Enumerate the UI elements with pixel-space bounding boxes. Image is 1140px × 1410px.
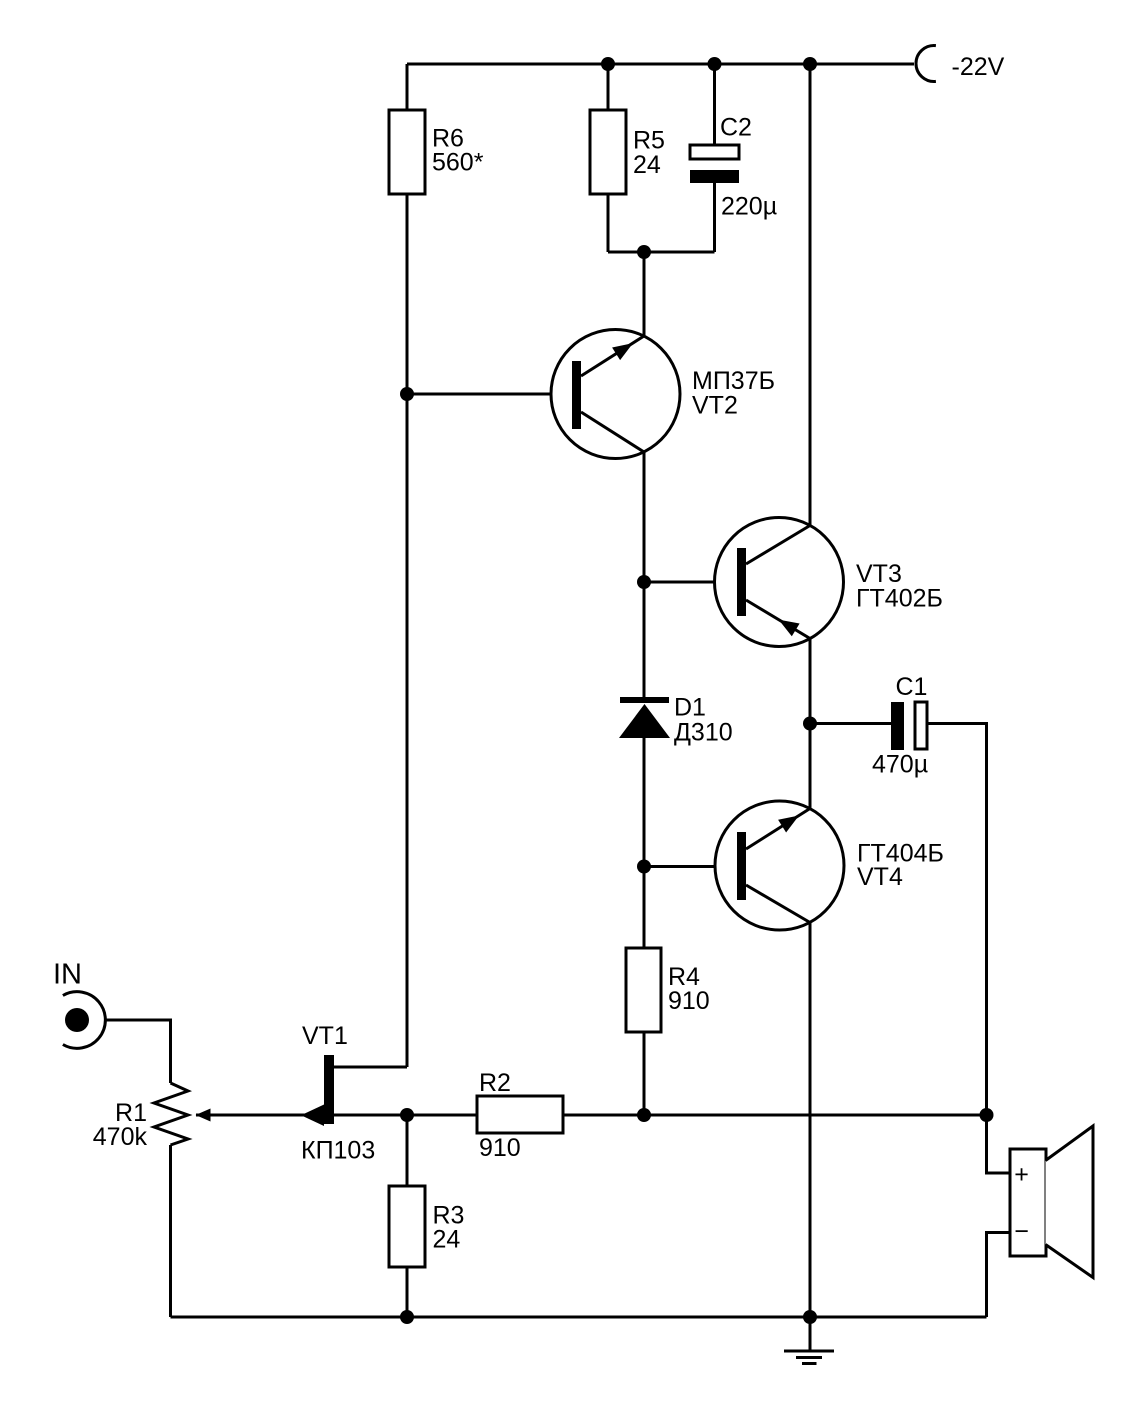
transistor VT3 (715, 518, 844, 647)
wire R3 top lead (406, 1115, 409, 1186)
wire VT3 emitter to C1 node to VT4 collector (809, 639, 812, 809)
wire D1 anode down through VT4 base node to R4 (643, 738, 646, 948)
wire R5/C2 bottom horizontal (608, 251, 715, 254)
svg-text:−: − (1014, 1218, 1029, 1246)
wire R5 bottom lead (607, 194, 610, 252)
wire main feedback horizontal (196, 1114, 987, 1117)
svg-text:910: 910 (479, 1134, 521, 1162)
resistor R6 (389, 110, 425, 194)
node output (980, 1108, 994, 1122)
svg-text:Д310: Д310 (674, 719, 733, 747)
svg-text:+: + (1014, 1161, 1029, 1189)
svg-text:VT2: VT2 (692, 392, 738, 420)
wire R5 top lead (607, 64, 610, 110)
wire left vertical from rail to R6 (406, 64, 409, 110)
transistor VT4 (715, 801, 844, 930)
wire speaker minus lead (987, 1233, 1011, 1318)
svg-text:24: 24 (433, 1226, 461, 1254)
svg-text:220µ: 220µ (721, 193, 777, 221)
resistor R5 (590, 110, 626, 194)
wire VT2 base horizontal (407, 393, 572, 396)
node R4 bottom (637, 1108, 651, 1122)
node VT3 base (637, 575, 651, 589)
svg-text:560*: 560* (432, 149, 484, 177)
node VT2 collector (637, 245, 651, 259)
terminal -22V (916, 46, 936, 82)
svg-text:R2: R2 (479, 1069, 511, 1097)
svg-text:D1: D1 (674, 694, 706, 722)
resistor R3 (389, 1186, 425, 1267)
transistor VT2 (551, 330, 680, 459)
node rail-R5 (601, 57, 615, 71)
svg-text:ГТ402Б: ГТ402Б (856, 585, 943, 613)
svg-text:VT4: VT4 (857, 863, 903, 891)
node rail-right (803, 57, 817, 71)
svg-text:IN: IN (53, 959, 82, 991)
ground stem (809, 1317, 812, 1351)
wire R4 bottom lead (643, 1032, 646, 1115)
resistor R2 (477, 1096, 563, 1133)
ground symbol (784, 1351, 834, 1364)
wire C2 bottom lead (713, 183, 716, 252)
svg-text:470µ: 470µ (872, 751, 928, 779)
node rail-C2 (708, 57, 722, 71)
wire IN to R1 top (106, 1020, 171, 1083)
wire VT4 base horizontal (644, 865, 737, 868)
svg-text:КП103: КП103 (301, 1137, 375, 1165)
potentiometer R1 wiper arrow (196, 1109, 211, 1122)
wire speaker plus lead (987, 1115, 1011, 1173)
svg-text:-22V: -22V (952, 53, 1005, 81)
wire R6 bottom long vertical down to VT1 drain (406, 194, 409, 1067)
potentiometer R1 zigzag (154, 1083, 188, 1145)
terminal IN (63, 992, 105, 1049)
svg-text:24: 24 (633, 151, 661, 179)
speaker (1010, 1126, 1093, 1278)
svg-text:470k: 470k (93, 1123, 148, 1151)
wire C2 top lead (713, 64, 716, 145)
resistor R4 (626, 948, 661, 1032)
node vertical VT3 base to D1 (643, 582, 646, 697)
node C1 left (803, 717, 817, 731)
node VT4 base (637, 860, 651, 874)
wire VT2 emitter down to VT3 base node (643, 452, 646, 582)
svg-text:C1: C1 (896, 673, 928, 701)
node VT1 source (400, 1108, 414, 1122)
wire bottom ground rail (171, 1316, 987, 1319)
svg-text:910: 910 (668, 987, 710, 1015)
wire VT2 collector vertical (643, 252, 646, 336)
wire right rail from top to VT3 collector (809, 64, 812, 526)
wire VT4 emitter vertical down to ground node (809, 923, 812, 1318)
wire VT1 drain lead (334, 1066, 407, 1069)
wire R3 bottom lead (406, 1267, 409, 1317)
node VT2 base (400, 387, 414, 401)
node R3 bottom (400, 1310, 414, 1324)
capacitor C2 (690, 145, 739, 159)
svg-text:C2: C2 (720, 114, 752, 142)
diode D1 (619, 697, 670, 738)
wire C1 right lead to output rail (927, 724, 987, 1116)
wire C1 left lead (810, 722, 891, 725)
wire top supply rail (407, 63, 914, 66)
capacitor C1 (891, 702, 904, 750)
transistor VT1 (JFET) (301, 1055, 334, 1126)
wire R1 bottom lead (169, 1145, 172, 1317)
svg-text:VT1: VT1 (302, 1022, 348, 1050)
node ground (803, 1310, 817, 1324)
wire VT3 base horizontal (644, 581, 737, 584)
